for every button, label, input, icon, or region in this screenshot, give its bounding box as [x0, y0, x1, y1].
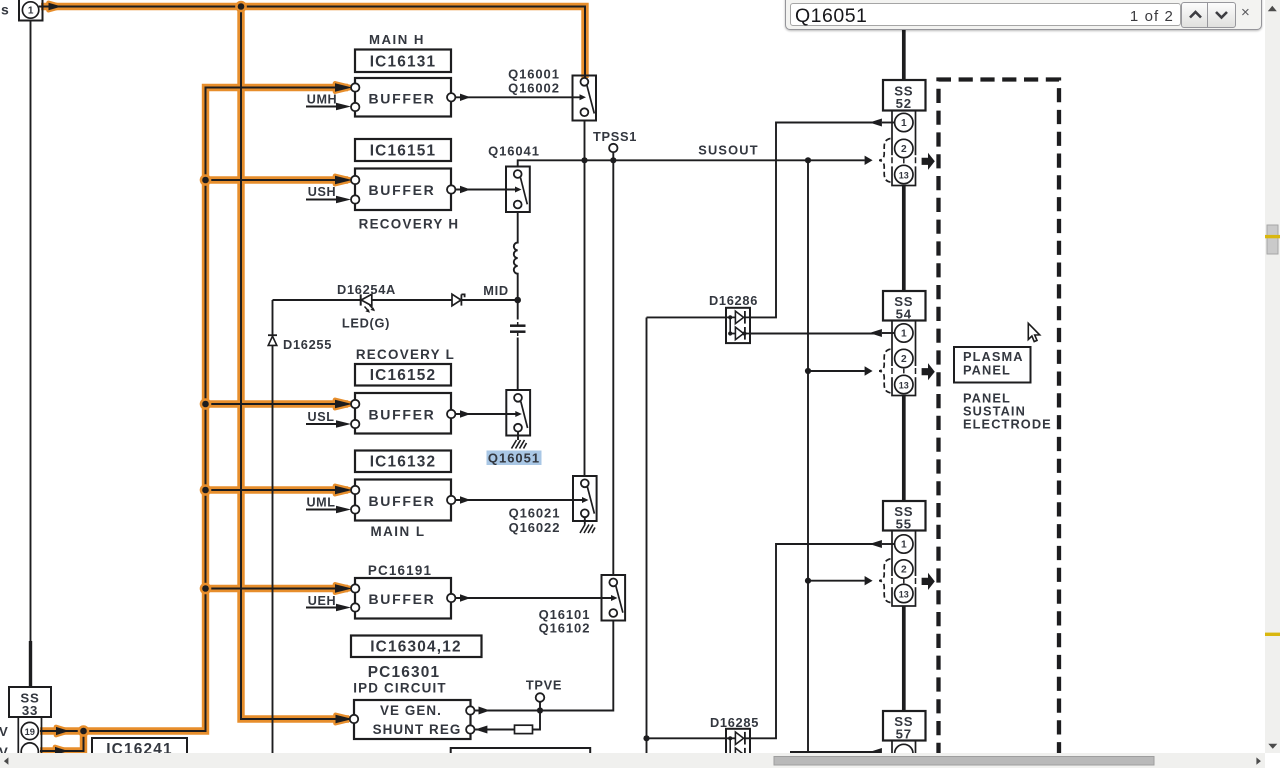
svg-text:19: 19 [25, 727, 35, 737]
IC16132 box [355, 451, 451, 473]
pin 1 [895, 113, 913, 131]
junction dots on highlighted net [78, 1, 247, 737]
VE GEN output arrow [479, 707, 491, 715]
svg-text:MID: MID [483, 283, 509, 298]
svg-text:USL: USL [308, 410, 335, 424]
find bar [785, 0, 1262, 30]
svg-text:13: 13 [899, 380, 909, 390]
arrow out of pin 1 [869, 329, 882, 337]
svg-text:1: 1 [901, 118, 907, 129]
thick sustain trunk wire [902, 28, 906, 711]
wire: x=808 SUSOUT distribution rail [807, 160, 809, 756]
buffer U4 output wire to Q16021 [455, 499, 582, 501]
wire: SS52 pin1 to D16286 top row [647, 316, 727, 318]
diode (MID series) [452, 294, 461, 306]
brace [879, 349, 890, 393]
svg-text:D16255: D16255 [283, 337, 332, 352]
wire: top Vs rail from terminal 1 to Q16001 [41, 7, 585, 79]
wire: TPVE stem [539, 702, 541, 711]
svg-text:V: V [0, 724, 8, 739]
svg-text:SUSOUT: SUSOUT [698, 143, 759, 158]
brace [879, 139, 890, 183]
connector SS52 [865, 80, 935, 186]
svg-text:LED(G): LED(G) [342, 316, 390, 331]
svg-text:1: 1 [901, 539, 907, 550]
svg-text:IPD CIRCUIT: IPD CIRCUIT [353, 681, 447, 696]
connector SS57 (clipped) [869, 711, 925, 763]
pin 13 [895, 165, 913, 183]
transistor Q16101/Q16102 switch box [602, 575, 626, 621]
connector SS54 [865, 291, 935, 396]
wire: SS55 pin1 to D16285 top row [647, 737, 727, 739]
dashed panel boundary [939, 80, 1060, 758]
wire: branch to USH buffer supply pin [206, 176, 349, 183]
buffer U2 box [355, 169, 451, 211]
svg-text:USH: USH [308, 185, 336, 199]
wire: shunt feedback through resistor [475, 711, 540, 730]
svg-text:13: 13 [899, 589, 909, 599]
svg-text:Q16051: Q16051 [488, 451, 540, 466]
IC16241 box (clipped) [92, 738, 187, 756]
svg-text:57: 57 [896, 726, 912, 741]
black cores of orange wires [39, 7, 585, 752]
transistor Q16051 switch box [506, 390, 530, 436]
svg-text:2: 2 [901, 144, 907, 155]
wire: Q16041 bottom to coil, MID node, capacitor, Q16051 top [514, 212, 518, 300]
diode D16255 [268, 336, 277, 345]
pins of buffer U2 [352, 177, 357, 182]
wire: MID horizontal with LED and diode [273, 299, 518, 301]
arrow into brace [865, 576, 873, 585]
buffer U3 box [355, 393, 451, 434]
horizontal scrollbar [0, 753, 1265, 768]
arrow into brace [865, 366, 873, 375]
terminal node 1 [19, 0, 43, 21]
svg-text:MAIN L: MAIN L [370, 524, 425, 539]
svg-text:BUFFER: BUFFER [369, 182, 436, 198]
pin 19 [30, 728, 35, 733]
pins of buffer U3 [352, 401, 357, 406]
svg-text:ELECTRODE: ELECTRODE [963, 416, 1052, 431]
svg-text:33: 33 [22, 703, 38, 718]
svg-text:RECOVERY H: RECOVERY H [359, 217, 460, 232]
vertical scrollbar [1265, 0, 1280, 753]
wire: branch to UML buffer supply pin [206, 486, 349, 493]
svg-text:IC16152: IC16152 [370, 367, 437, 384]
pin 1 [895, 535, 913, 553]
svg-text:Q16102: Q16102 [539, 621, 591, 636]
svg-text:UML: UML [306, 495, 335, 509]
pins of VE GEN box [350, 716, 355, 721]
svg-text:D16286: D16286 [709, 293, 758, 308]
ground under Q16051 [517, 432, 519, 440]
svg-text:IC16151: IC16151 [370, 142, 437, 159]
wire: branch to USL buffer supply pin [206, 400, 349, 407]
resistor R (shunt feedback) [515, 725, 533, 733]
pin 23 (clipped) [21, 743, 38, 760]
svg-text:IC16132: IC16132 [370, 453, 437, 470]
wire: left vertical from terminal 1 down to SS33 [30, 20, 32, 642]
svg-text:BUFFER: BUFFER [369, 90, 436, 106]
IC16304,12 box [351, 636, 482, 658]
pin 2 [895, 560, 913, 578]
wire: branch to UEH buffer supply pin [206, 585, 349, 592]
svg-text:Q16021: Q16021 [509, 506, 561, 521]
arrow out of pin 1 [869, 540, 882, 548]
LED D16254A [361, 294, 372, 306]
pin 13 [895, 375, 913, 393]
pin 2 [895, 349, 913, 367]
wire: main rail Q16001 bottom to Q16021 top [584, 121, 586, 477]
wire: SUSOUT bus from Q16041 top to SS52 brace arrow [518, 160, 865, 166]
wire: SS33 lower pin feed [40, 731, 84, 751]
svg-text:2: 2 [901, 564, 907, 575]
svg-text:1: 1 [28, 5, 34, 16]
arrow out of pin 1 [869, 748, 882, 756]
svg-text:IC16131: IC16131 [370, 53, 437, 70]
svg-text:MAIN H: MAIN H [369, 32, 425, 47]
IC16152 box [355, 364, 451, 386]
pins of buffer U4 [352, 487, 357, 492]
svg-text:55: 55 [896, 516, 912, 531]
arrow out of pin 1 [869, 119, 882, 127]
wire: D16255 vertical rail [272, 300, 274, 756]
black arrowheads on highlighted net [49, 3, 353, 755]
svg-text:BUFFER: BUFFER [369, 406, 436, 422]
svg-text:D16285: D16285 [710, 715, 759, 730]
wire: left orange riser x=205.5 from SS33 pin19 [40, 88, 348, 732]
VE GEN. / SHUNT REG box [354, 700, 471, 739]
buffer U3 output wire to Q16051 [455, 413, 515, 415]
pin 2 [895, 139, 913, 157]
svg-text:52: 52 [896, 96, 912, 111]
brace [879, 559, 890, 603]
svg-text:IC16241: IC16241 [106, 741, 173, 753]
IC16151 box [355, 139, 451, 161]
block arrow to panel [922, 363, 935, 380]
wire: SS55 brace feed [808, 580, 865, 582]
pin 1 [895, 324, 913, 342]
junction dots [514, 157, 811, 741]
svg-text:PANEL: PANEL [963, 362, 1011, 377]
pins of buffer U1 [352, 85, 357, 90]
svg-text:Q16001: Q16001 [508, 67, 560, 82]
wire: right orange riser x=241 feeding VE GEN [241, 7, 349, 720]
wire: D16286 bottom row to SS54 pin1 [750, 333, 881, 335]
svg-text:13: 13 [899, 170, 909, 180]
wire: Q16101 bottom to TPVE node to VE GEN output [474, 621, 613, 711]
svg-text:1: 1 [901, 328, 907, 339]
svg-text:D16254A: D16254A [337, 282, 396, 297]
svg-text:V: V [0, 745, 8, 754]
svg-text:s: s [1, 2, 9, 18]
box below shunt reg (clipped) [451, 748, 591, 760]
svg-text:BUFFER: BUFFER [369, 493, 436, 509]
buffer U5 output wire to Q16101 [455, 597, 611, 599]
pins of buffer U5 [352, 586, 357, 591]
transistor Q16021/Q16022 switch box [573, 476, 597, 521]
svg-text:2: 2 [901, 354, 907, 365]
svg-text:VE GEN.: VE GEN. [380, 703, 442, 718]
connector SS55 [865, 501, 935, 606]
pin 13 [895, 584, 913, 602]
arrow into shunt input [475, 726, 488, 734]
wire: TPSS1 stem down to Q16101 [612, 152, 614, 575]
wire: x=646.5 rail from D16286 to D16285 [646, 318, 648, 757]
transistor Q16041 switch box [506, 167, 530, 213]
wire: SS54 brace feed [808, 370, 865, 372]
transistor Q16001/Q16002 switch box [582, 78, 587, 83]
svg-text:PC16301: PC16301 [368, 664, 441, 681]
svg-text:BUFFER: BUFFER [369, 591, 436, 607]
svg-text:Q16041: Q16041 [488, 144, 540, 159]
svg-text:TPVE: TPVE [526, 677, 562, 692]
svg-text:PC16191: PC16191 [368, 563, 432, 578]
connector SS33 box [9, 687, 51, 717]
wire: SS57 pin1 partial [790, 751, 881, 753]
svg-text:TPSS1: TPSS1 [593, 129, 637, 144]
IC16131 box [355, 50, 451, 73]
buffer U2 output wire to Q16041 [455, 189, 515, 191]
search highlight + label Q16051 [487, 451, 542, 466]
svg-text:Q16002: Q16002 [508, 81, 560, 96]
capacitor plates [510, 324, 526, 327]
svg-text:UMH: UMH [307, 93, 337, 107]
svg-text:UEH: UEH [308, 594, 336, 608]
buffer U4 box [355, 480, 451, 521]
orange halos around black arrowheads of highlighted net [49, 3, 353, 755]
svg-text:Q16022: Q16022 [509, 520, 561, 535]
mouse cursor [1028, 323, 1039, 341]
SS33 pin strip [18, 717, 41, 756]
svg-text:SHUNT REG: SHUNT REG [373, 722, 462, 737]
arrow into brace [865, 156, 873, 165]
pin 1 (clipped) [895, 744, 913, 762]
buffer U1 box [355, 78, 451, 117]
buffer U1 output wire with arrows to Q16001 [455, 96, 580, 98]
svg-text:54: 54 [896, 306, 912, 321]
svg-text:RECOVERY L: RECOVERY L [356, 347, 455, 362]
block arrow to panel [922, 573, 935, 590]
PLASMA PANEL box [954, 347, 1031, 383]
buffer U5 box [355, 578, 451, 619]
svg-text:IC16304,12: IC16304,12 [370, 638, 462, 655]
ground under Q16021 [584, 517, 586, 524]
block arrow to panel [922, 153, 935, 170]
